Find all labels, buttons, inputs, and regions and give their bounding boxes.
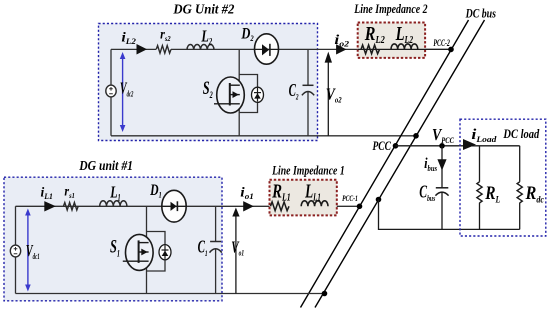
Vo1 voltage arrow [232, 208, 239, 294]
capacitor Cbus [435, 188, 448, 196]
Line Impedance 1 dashed box [270, 180, 337, 216]
diode D2 [255, 34, 279, 64]
svg-text:DG unit #1: DG unit #1 [78, 159, 133, 174]
wire inside impedance 2 [358, 48, 451, 50]
body diode of S2 [252, 87, 264, 102]
wire: DG1 bottom rail [16, 293, 325, 295]
resistor rs1 [63, 203, 78, 211]
node bus B bottom [322, 291, 328, 297]
resistor Rdc vertical [517, 146, 522, 230]
resistor RL1 [271, 202, 290, 211]
mosfet S1 body-diode bracket [147, 232, 166, 272]
inductor LL1 [301, 201, 328, 207]
node PCC-2 [448, 47, 454, 53]
inductor L1 [100, 201, 127, 207]
wire: DG2 left vertical [110, 49, 112, 135]
wire: DG2 switch branch vertical [238, 49, 240, 135]
resistor rs2 [156, 46, 171, 54]
wire: DG1 switch branch vertical [146, 206, 148, 293]
wire: bus B to load bottom rail [379, 200, 520, 230]
current arrow iL1 [44, 201, 56, 211]
node DG2 return on bus B [413, 133, 419, 139]
current arrow io2 [336, 44, 346, 54]
svg-text:PCC-1: PCC-1 [342, 193, 358, 203]
DG Unit #2 dashed box [99, 24, 318, 141]
DG unit #1 dashed box [4, 177, 222, 301]
Vdc1 voltage arrow (blue) [25, 209, 31, 292]
source Vdc1 [10, 245, 20, 257]
inductor L2 [187, 44, 214, 49]
inductor LL2 [391, 44, 418, 50]
mosfet S2 [214, 77, 244, 113]
node VPCC [439, 143, 445, 149]
wire: DG2 bottom rail [111, 135, 416, 137]
resistor RL2 [361, 45, 380, 54]
wire: DG1 left vertical [15, 206, 17, 293]
current arrow ibus [437, 159, 446, 170]
capacitor C1 [210, 206, 222, 293]
current arrow iLoad [463, 139, 476, 150]
body diode of S1 [159, 245, 171, 260]
capacitor C2 [302, 49, 314, 135]
wire: DG1 top rail [16, 205, 360, 207]
svg-text:PCC-2: PCC-2 [433, 38, 450, 48]
Vdc2 voltage arrow (blue) [120, 52, 126, 132]
source Vdc2 [106, 85, 116, 97]
diode D1 [162, 190, 187, 222]
DC bus line A [301, 20, 469, 308]
node PCC [393, 143, 399, 149]
current arrow iL2 [137, 44, 148, 55]
current arrow io1 [243, 201, 254, 211]
wire: Cbus vertical [441, 146, 443, 230]
Vo2 voltage arrow [325, 52, 332, 136]
mosfet S1 [123, 234, 153, 270]
wire: DG2 top rail [111, 48, 156, 50]
svg-text:DC bus: DC bus [465, 6, 496, 21]
mosfet S2 body-diode bracket [239, 75, 257, 113]
Line Impedance 2 dashed box [358, 23, 425, 58]
svg-text:DC load: DC load [503, 126, 540, 141]
DC bus line B [315, 20, 485, 308]
node PCC-1 [357, 204, 363, 210]
DC load dashed box [460, 119, 546, 236]
resistor RL vertical [477, 146, 482, 230]
node bus B mid [376, 197, 382, 203]
svg-text:PCC: PCC [373, 138, 392, 153]
svg-text:DG Unit #2: DG Unit #2 [172, 2, 234, 17]
svg-text:Line Impedance 2: Line Impedance 2 [353, 1, 427, 16]
wire: DG2 top rail right part [171, 48, 451, 50]
wire: PCC rail to load [396, 145, 520, 147]
svg-text:Line Impedance 1: Line Impedance 1 [271, 163, 344, 178]
